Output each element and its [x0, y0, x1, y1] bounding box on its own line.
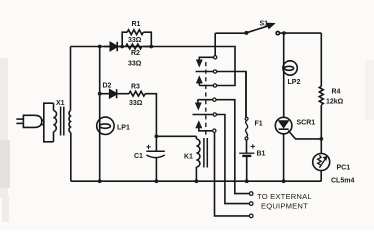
svg-text:R4: R4: [332, 89, 341, 96]
svg-text:33Ω: 33Ω: [128, 37, 142, 44]
svg-text:D2: D2: [103, 83, 112, 90]
svg-text:K1: K1: [184, 154, 193, 161]
svg-text:R2: R2: [131, 50, 140, 57]
svg-text:X1: X1: [56, 100, 65, 107]
svg-text:C1: C1: [134, 153, 143, 160]
svg-text:SCR1: SCR1: [297, 120, 316, 127]
svg-text:B1: B1: [257, 151, 266, 158]
svg-text:PC1: PC1: [337, 165, 351, 172]
svg-text:R3: R3: [131, 84, 140, 91]
svg-text:R1: R1: [132, 21, 141, 28]
svg-text:LP2: LP2: [288, 79, 301, 86]
svg-text:S1: S1: [260, 21, 269, 28]
svg-text:33Ω: 33Ω: [128, 61, 142, 68]
svg-text:F1: F1: [255, 121, 263, 128]
svg-text:12kΩ: 12kΩ: [326, 99, 344, 106]
svg-text:33Ω: 33Ω: [129, 100, 143, 107]
svg-text:EQUIPMENT: EQUIPMENT: [261, 201, 308, 210]
svg-text:LP1: LP1: [117, 125, 130, 132]
svg-text:TO EXTERNAL: TO EXTERNAL: [257, 192, 312, 201]
svg-text:CL5m4: CL5m4: [331, 178, 354, 185]
